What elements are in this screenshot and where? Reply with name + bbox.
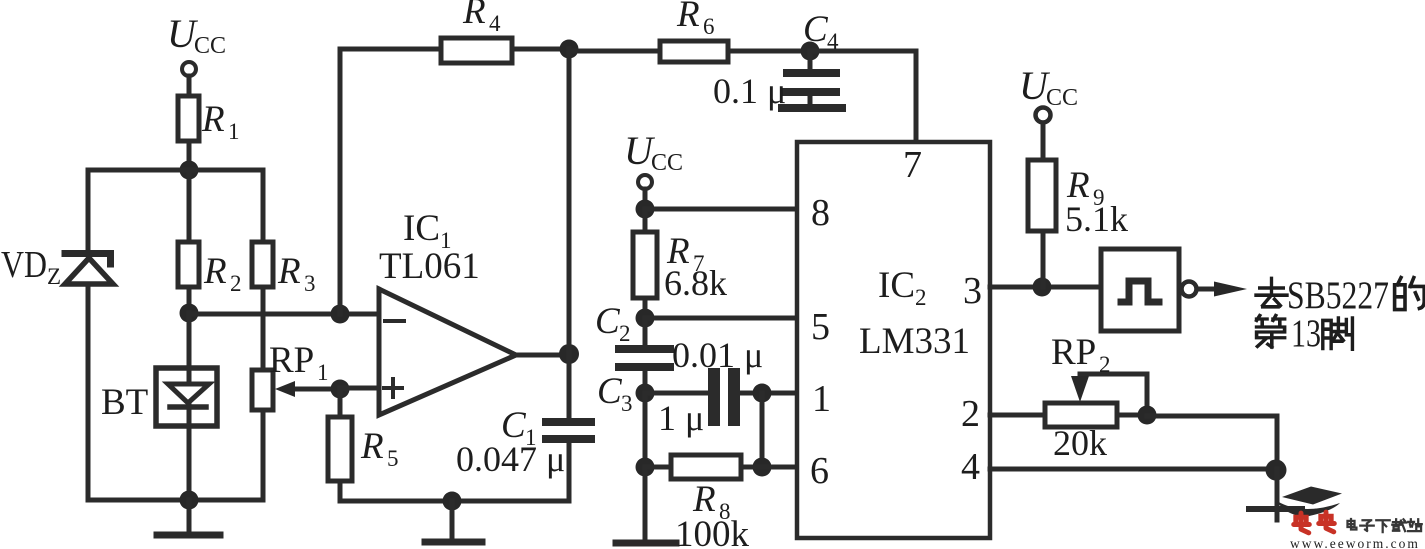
svg-text:www.eeworm.com: www.eeworm.com [1290, 536, 1420, 549]
node E junction [560, 40, 579, 59]
svg-text:SB5227: SB5227 [1287, 274, 1389, 317]
svg-text:7: 7 [903, 144, 922, 186]
svg-text:13: 13 [1291, 312, 1321, 355]
svg-text:TL061: TL061 [379, 246, 480, 287]
svg-text:1 μ: 1 μ [658, 398, 704, 438]
svg-text:2: 2 [961, 393, 980, 435]
svg-text:0.01 μ: 0.01 μ [672, 335, 763, 375]
node UCC1 terminal [182, 62, 196, 76]
node L junction [753, 384, 772, 403]
wire R7 top lead [643, 209, 648, 232]
svg-text:C: C [803, 9, 829, 50]
wire node K to C3 [645, 391, 708, 396]
svg-text:5: 5 [387, 446, 399, 471]
ground G1 [157, 500, 220, 535]
svg-text:6: 6 [810, 450, 829, 492]
wire UCC3 to R9 [1041, 123, 1046, 160]
zener diode VDZ [65, 254, 113, 285]
wire node C to op-amp [340, 386, 379, 391]
svg-text:4: 4 [827, 29, 839, 54]
wire R9 bottom lead [1041, 231, 1046, 287]
sensor BT box [156, 368, 217, 426]
node H junction (output) [559, 344, 579, 364]
ground C4 [782, 96, 842, 108]
potentiometer RP1 wiper arrow [275, 381, 340, 397]
resistor R9 [1028, 160, 1056, 231]
wire R4 to node E [512, 47, 569, 52]
wire IC2 pin4 [990, 467, 1277, 472]
wire main vertical [567, 49, 572, 419]
svg-text:LM331: LM331 [859, 321, 970, 362]
node D junction (inverting) [331, 305, 350, 324]
svg-text:4: 4 [489, 11, 501, 36]
svg-text:R: R [360, 426, 384, 467]
resistor R3 [252, 242, 273, 287]
svg-text:R: R [203, 251, 227, 292]
node N junction (R8 right) [753, 458, 772, 477]
wire UCC2 down [643, 189, 648, 209]
IC U2 LM331 box [797, 142, 990, 538]
ground G4 [1249, 469, 1302, 520]
op-amp U1 triangle [379, 289, 516, 415]
wire output arrow [1197, 282, 1247, 297]
wire C2 bottom lead [643, 371, 648, 393]
svg-text:IC: IC [878, 265, 915, 306]
node B junction [180, 304, 199, 323]
watermark cap logo [1277, 487, 1342, 518]
resistor R8 [671, 455, 741, 479]
op-amp plus sign [384, 379, 402, 397]
wire node B to op-amp inverting input [189, 312, 379, 317]
node F junction [801, 42, 820, 61]
svg-text:CC: CC [194, 33, 226, 59]
capacitor C2 [619, 349, 670, 367]
svg-text:3: 3 [963, 270, 982, 312]
svg-text:R: R [676, 0, 700, 35]
wire feedback vertical [340, 49, 441, 314]
resistor R7 [633, 232, 657, 298]
node I junction [636, 200, 655, 219]
wire RP2 to node Q [1117, 413, 1147, 418]
wire node Q to node R [1147, 416, 1277, 469]
wire node J to IC2 pin5 [645, 316, 797, 321]
svg-text:5.1k: 5.1k [1065, 199, 1128, 239]
wire IC2 pin2 [990, 413, 1045, 418]
wire R3 to RP1 [261, 287, 266, 370]
wire bottom-left ground rail [88, 498, 263, 503]
svg-text:3: 3 [304, 271, 316, 296]
node UCC3 terminal [1036, 108, 1051, 123]
wire C2 top lead [643, 318, 648, 345]
node C junction (non-inverting) [331, 380, 350, 399]
wire UCC1 to R1 [187, 76, 192, 96]
svg-text:R: R [462, 0, 486, 32]
resistor R1 [178, 96, 199, 141]
diode inside BT [168, 384, 209, 407]
wire IC2 pin3 [990, 285, 1101, 290]
capacitor C1 [546, 422, 591, 439]
wire BT top lead [187, 313, 192, 384]
resistor R4 [441, 38, 512, 63]
wire R8 left lead [645, 465, 671, 470]
svg-text:IC: IC [403, 208, 440, 249]
svg-text:RP: RP [1051, 332, 1096, 373]
wire node F to IC2 pin7 [810, 51, 916, 142]
capacitor C4 [786, 73, 836, 92]
svg-text:BT: BT [101, 382, 148, 423]
svg-text:CC: CC [651, 150, 683, 176]
wire R2 bottom lead [187, 287, 192, 313]
pulse shaper box [1101, 249, 1179, 331]
svg-text:C: C [597, 371, 623, 412]
wire R1 to node A [187, 141, 192, 170]
wire node M to ground [643, 467, 648, 538]
node P junction [1033, 278, 1052, 297]
resistor R6 [660, 41, 728, 62]
node G1 junction [180, 491, 199, 510]
label output text line2: di 13 jiao [1257, 315, 1285, 347]
wire node E to R6 [569, 49, 660, 54]
wire R8 right lead to IC2 pin6 [741, 465, 797, 470]
svg-text:1: 1 [317, 360, 329, 385]
watermark chong chong red [1294, 512, 1335, 533]
wire node K down [643, 393, 648, 467]
svg-text:1: 1 [812, 378, 831, 420]
svg-text:20k: 20k [1053, 423, 1107, 463]
resistor R2 [178, 242, 199, 287]
pulse symbol [1121, 281, 1159, 302]
wire C1 bottom lead [567, 443, 572, 501]
ground G2 [425, 501, 482, 542]
resistor R5 [328, 417, 352, 481]
wire BT bottom lead [187, 404, 192, 500]
svg-text:2: 2 [619, 321, 631, 346]
capacitor C3 [714, 374, 734, 420]
svg-text:2: 2 [230, 271, 242, 296]
node J junction (C2) [636, 309, 655, 328]
svg-text:C: C [595, 301, 621, 342]
svg-text:Z: Z [47, 264, 61, 289]
svg-text:0.1 μ: 0.1 μ [713, 71, 786, 111]
svg-text:0.047 μ: 0.047 μ [456, 439, 565, 479]
potentiometer RP2 body [1045, 403, 1117, 427]
svg-text:R: R [201, 99, 225, 140]
node G2 junction [443, 492, 462, 511]
node UCC2 terminal [638, 175, 652, 189]
svg-text:6.8k: 6.8k [664, 263, 727, 303]
node M junction (R8 left) [636, 458, 655, 477]
node output terminal [1182, 282, 1197, 297]
wire VDZ top lead [86, 170, 91, 252]
wire R6 to node F [728, 49, 810, 54]
svg-text:8: 8 [811, 192, 830, 234]
svg-text:2: 2 [915, 285, 927, 310]
wire VDZ bottom lead [86, 284, 91, 500]
watermark site name [1347, 519, 1421, 532]
wire op-amp output [516, 353, 569, 358]
svg-text:CC: CC [1046, 85, 1078, 111]
potentiometer RP2 wiper [1071, 374, 1147, 415]
node A junction [180, 161, 199, 180]
wire RP1 bottom lead [261, 410, 266, 500]
svg-text:5: 5 [811, 306, 830, 348]
node K junction (C3) [636, 384, 655, 403]
label output text line1: qu SB5227 de [1256, 278, 1287, 306]
svg-text:6: 6 [703, 14, 715, 39]
wire R2 top lead [187, 170, 192, 242]
wire C4 top lead [808, 51, 813, 69]
wire row y170 [88, 168, 263, 173]
svg-text:1: 1 [228, 119, 240, 144]
svg-text:VD: VD [1, 244, 47, 286]
svg-text:R: R [277, 251, 301, 292]
ground G3 [616, 540, 676, 547]
svg-text:3: 3 [621, 391, 633, 416]
svg-text:100k: 100k [675, 514, 750, 549]
wire R7 bottom lead [643, 298, 648, 318]
wire R5 top lead [338, 389, 343, 417]
wire R5 bottom lead [340, 481, 569, 501]
op-amp minus sign [385, 319, 404, 323]
wire node I to IC2 pin8 [645, 207, 797, 212]
node Q junction [1138, 406, 1157, 425]
svg-text:RP: RP [269, 340, 314, 381]
wire node L down [760, 393, 765, 467]
wire C3 to node L [740, 391, 797, 396]
wire R3 top lead [261, 170, 266, 242]
svg-text:2: 2 [1099, 352, 1111, 377]
svg-text:4: 4 [961, 446, 980, 488]
node R junction [1266, 460, 1287, 481]
potentiometer RP1 body [252, 370, 273, 410]
